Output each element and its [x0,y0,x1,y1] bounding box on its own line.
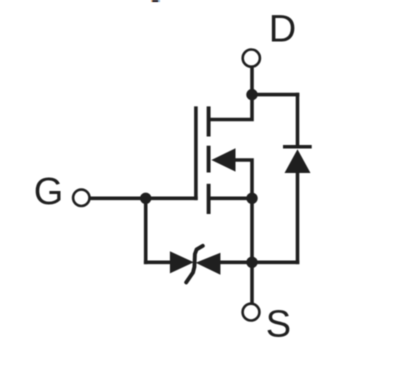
wire: D stem down through drain node to drain-lead corner [210,67,252,120]
wire: gate branch down [144,198,148,264]
MOSFET Q1 gate bar [194,106,198,200]
wire: bottom rail left [144,260,172,264]
node: S junction [246,257,257,268]
terminal D [243,50,260,67]
MOSFET Q1 source lead [209,197,252,201]
terminal G [73,190,89,206]
wire: diode branch lower vertical [296,172,300,265]
MOSFET Q1 channel body segment [207,146,211,173]
wire: drain node to diode branch (top horizontal) [252,93,299,97]
node: gate junction [140,193,151,204]
diode D1 anode triangle [285,149,311,173]
wire: bottom rail right [220,260,300,264]
svg-text:D: D [269,8,296,50]
diode D1 cathode bar [283,145,312,149]
svg-text:S: S [266,303,291,345]
node: drain junction [246,89,257,100]
MOSFET Q1 channel source segment [207,184,211,214]
zener Z1 bar [186,246,203,283]
zener Z1 right anode triangle [196,253,221,275]
MOSFET Q1 body arrow [211,148,235,171]
cropped text fragment (top edge) [151,0,160,2]
wire: S stem down to terminal [250,262,254,303]
zener Z1 left anode triangle [170,251,194,273]
terminal S [243,304,260,321]
MOSFET Q1 channel drain segment [207,106,211,136]
wire: gate lead [90,197,198,201]
svg-text:G: G [34,171,64,213]
MOSFET Q1 body lead [234,160,252,198]
node: source junction [246,193,257,204]
wire: diode branch upper vertical [296,93,300,148]
wire: source stem down to S node [250,198,254,262]
